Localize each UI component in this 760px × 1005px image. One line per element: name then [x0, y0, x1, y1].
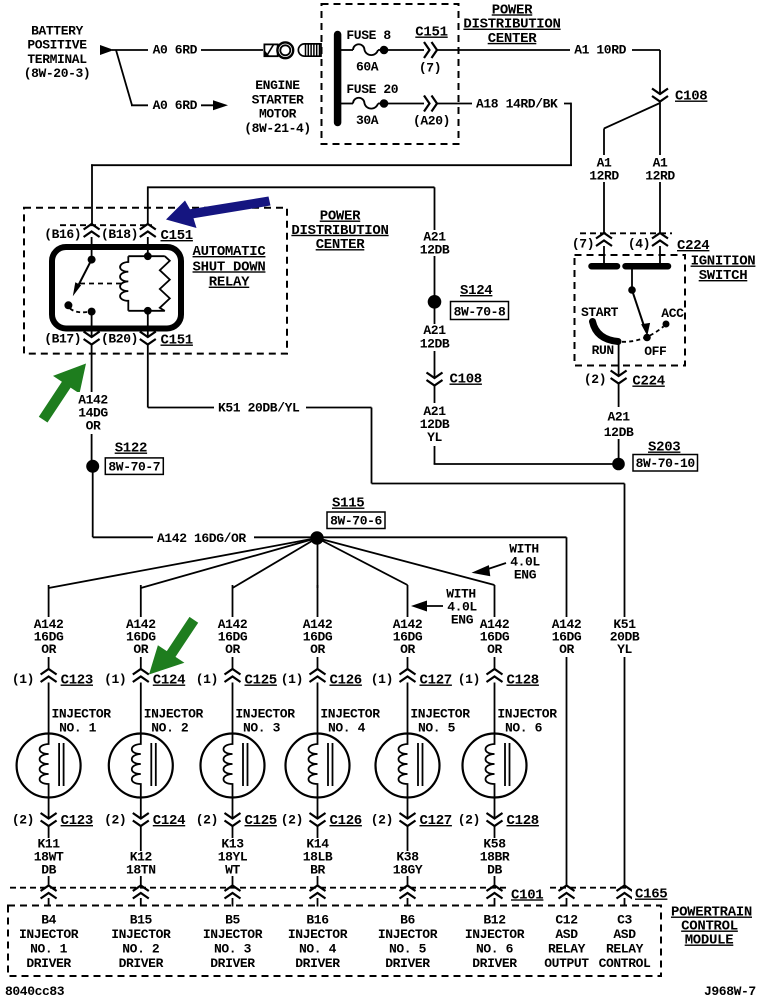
- connector C101 pin (injector 6): [487, 886, 503, 899]
- svg-text:8W-70-8: 8W-70-8: [454, 304, 506, 319]
- label A142 14DG OR: [75, 392, 111, 434]
- svg-text:NO. 2: NO. 2: [122, 942, 160, 957]
- svg-text:DRIVER: DRIVER: [210, 956, 255, 971]
- svg-text:C151: C151: [415, 25, 447, 41]
- svg-text:WT: WT: [225, 863, 240, 878]
- relay coil output wire to B20: [147, 311, 149, 338]
- svg-text:(2): (2): [12, 812, 34, 827]
- injector 4 coil: [309, 737, 318, 795]
- label K51 20DB YL (col 8): [609, 617, 642, 657]
- wire C125 to injector 3: [232, 683, 234, 738]
- svg-text:J968W-7: J968W-7: [704, 984, 756, 999]
- svg-text:C12: C12: [555, 913, 578, 928]
- svg-text:12DB: 12DB: [420, 243, 450, 258]
- connector C224 pin 4: [652, 233, 668, 246]
- svg-text:INJECTOR: INJECTOR: [410, 707, 470, 722]
- svg-text:(1): (1): [196, 672, 218, 687]
- ignition feed wire: [631, 269, 633, 290]
- svg-text:A18 14RD/BK: A18 14RD/BK: [476, 97, 558, 112]
- ignition contact bar right: [626, 263, 669, 270]
- injector 2 body: [109, 734, 173, 798]
- svg-text:8W-70-10: 8W-70-10: [636, 456, 696, 471]
- wire injector 4 return: [317, 795, 319, 819]
- splice S203: [612, 458, 625, 471]
- svg-text:OUTPUT: OUTPUT: [544, 956, 589, 971]
- svg-text:C101: C101: [511, 887, 543, 903]
- label A142 16DG OR (col 7): [550, 617, 585, 657]
- injector 3 body: [201, 734, 265, 798]
- automatic shut down relay box: [52, 247, 181, 329]
- ref box 8W-70-6: [327, 512, 385, 529]
- wire C126 to injector 4: [317, 683, 319, 738]
- wire A1 10RD: [437, 49, 660, 51]
- ref box 8W-70-10: [633, 455, 698, 472]
- injector 1 core: [58, 743, 60, 786]
- pointer arrow (blue) to C151: [166, 197, 271, 229]
- svg-text:(A20): (A20): [413, 114, 450, 129]
- label A21 12DB (mid): [416, 324, 453, 351]
- svg-text:B5: B5: [225, 913, 240, 928]
- wire A21 12DB YL: [434, 386, 436, 465]
- svg-text:C224: C224: [677, 238, 709, 254]
- connector C151 dashed line (top): [60, 224, 152, 226]
- svg-text:DB: DB: [487, 863, 502, 878]
- wire injector 3 return: [232, 795, 234, 819]
- ignition ACC contact: [663, 321, 670, 328]
- label A142 16DG OR (col 2): [124, 617, 159, 657]
- label A0 6RD (lower): [148, 97, 201, 111]
- relay coil feed wire: [147, 237, 149, 256]
- svg-text:FUSE 20: FUSE 20: [346, 82, 398, 97]
- svg-text:RELAY: RELAY: [548, 942, 586, 957]
- ref box 8W-70-8: [451, 302, 509, 320]
- wire K4 driver: [407, 826, 409, 886]
- injector 4 body: [286, 734, 350, 798]
- wire A142 14DG/OR: [91, 345, 93, 461]
- svg-text:C108: C108: [450, 372, 482, 388]
- connector C127 pin 1: [400, 669, 416, 682]
- injector 4 core: [327, 743, 329, 786]
- svg-text:S203: S203: [648, 440, 680, 456]
- wire fuse F20 to C151: [384, 103, 424, 105]
- label C101: [508, 884, 548, 899]
- svg-text:(B17): (B17): [44, 332, 81, 347]
- wire K51 to C165: [624, 484, 626, 887]
- starter motor feed arrowhead: [213, 100, 228, 110]
- svg-text:(8W-21-4): (8W-21-4): [244, 121, 311, 136]
- label K11 18WT DB: [32, 838, 67, 876]
- wire K51 20DB/YL: [147, 345, 149, 408]
- label A142 16DG OR (col 1): [32, 617, 67, 657]
- connector C127 pin 2: [400, 813, 416, 826]
- svg-text:18GY: 18GY: [393, 863, 423, 878]
- svg-text:ENG: ENG: [514, 568, 537, 583]
- svg-text:12DB: 12DB: [604, 425, 634, 440]
- wire A1 10RD drop: [659, 50, 661, 95]
- relay coil top node: [128, 255, 165, 257]
- injector 6 body: [463, 734, 527, 798]
- wire K5 driver: [494, 826, 496, 886]
- svg-text:RELAY: RELAY: [209, 275, 250, 291]
- injector 6 coil: [486, 737, 495, 795]
- connector C224 pin 7: [596, 233, 612, 246]
- injector 3 core: [242, 743, 244, 786]
- svg-text:C123: C123: [61, 813, 93, 829]
- svg-text:INJECTOR: INJECTOR: [465, 927, 525, 942]
- svg-text:INJECTOR: INJECTOR: [288, 927, 348, 942]
- wire K0 driver: [48, 826, 50, 886]
- connector C101 dashed line: [10, 887, 630, 889]
- svg-text:SWITCH: SWITCH: [699, 268, 748, 284]
- connector C224 pin 2: [611, 371, 627, 384]
- svg-text:8040cc83: 8040cc83: [5, 984, 65, 999]
- connector C126 pin 1: [310, 669, 326, 682]
- svg-text:B12: B12: [483, 913, 506, 928]
- svg-text:DRIVER: DRIVER: [472, 956, 517, 971]
- svg-text:C125: C125: [245, 673, 277, 689]
- svg-text:8W-70-6: 8W-70-6: [330, 514, 382, 529]
- connector C125 pin 2: [225, 813, 241, 826]
- svg-text:CENTER: CENTER: [488, 31, 538, 47]
- svg-text:C151: C151: [161, 228, 193, 244]
- connector C101 pin (injector 5): [400, 886, 416, 899]
- connector C151 pin 7 (fuse 8): [424, 42, 437, 58]
- svg-text:30A: 30A: [356, 113, 379, 128]
- connector C108 (top): [652, 89, 668, 102]
- svg-text:C128: C128: [507, 673, 539, 689]
- svg-text:(1): (1): [371, 672, 393, 687]
- ignition pivot junction: [628, 286, 636, 294]
- svg-text:(2): (2): [458, 812, 480, 827]
- svg-text:NO. 5: NO. 5: [418, 721, 456, 736]
- svg-text:POSITIVE: POSITIVE: [27, 38, 87, 53]
- svg-text:C126: C126: [330, 673, 362, 689]
- svg-text:12DB: 12DB: [420, 337, 450, 352]
- svg-text:DRIVER: DRIVER: [385, 956, 430, 971]
- pointer arrow (green) to A142 wire: [39, 364, 86, 423]
- wire C127 to injector 5: [407, 683, 409, 738]
- svg-text:A1 10RD: A1 10RD: [574, 43, 626, 58]
- svg-text:INJECTOR: INJECTOR: [111, 927, 171, 942]
- power distribution center box (top): [322, 4, 459, 144]
- wire injector 5 return: [407, 795, 409, 819]
- injector 6 core: [504, 743, 506, 786]
- connector C151 pin A20 (fuse 20): [424, 96, 437, 112]
- injector 1 coil: [40, 737, 49, 795]
- powertrain control module box: [8, 906, 661, 977]
- bus bar: [334, 35, 342, 123]
- ignition START-RUN contact arc: [593, 322, 619, 342]
- svg-text:(2): (2): [196, 812, 218, 827]
- relay coil L1: [120, 256, 128, 311]
- relay contact dashed link: [70, 309, 87, 313]
- svg-text:S115: S115: [332, 496, 364, 512]
- svg-text:A21: A21: [607, 410, 630, 425]
- injector 2 coil: [132, 737, 141, 795]
- svg-text:INJECTOR: INJECTOR: [497, 707, 557, 722]
- label A0 6RD (upper): [148, 42, 201, 56]
- svg-text:(7): (7): [419, 60, 441, 75]
- svg-text:C165: C165: [635, 887, 667, 903]
- svg-text:K51 20DB/YL: K51 20DB/YL: [218, 401, 300, 416]
- connector C128 pin 1: [487, 669, 503, 682]
- svg-text:C124: C124: [153, 813, 185, 829]
- power distribution center box (relay): [24, 208, 287, 354]
- svg-text:(2): (2): [584, 372, 606, 387]
- connector C108 (mid): [427, 373, 443, 386]
- svg-text:OR: OR: [225, 642, 240, 657]
- svg-text:(B16): (B16): [44, 227, 81, 242]
- label K12 18TN: [124, 851, 159, 876]
- svg-text:INJECTOR: INJECTOR: [19, 927, 79, 942]
- label A142 16DG OR (col 4): [301, 617, 336, 657]
- svg-text:C3: C3: [617, 913, 632, 928]
- injector 1 body: [17, 734, 81, 798]
- svg-text:OR: OR: [559, 642, 574, 657]
- injector 5 body: [376, 734, 440, 798]
- relay switch pivot: [88, 256, 96, 264]
- svg-text:DRIVER: DRIVER: [119, 956, 164, 971]
- svg-text:(7): (7): [572, 237, 594, 252]
- wire C123 to injector 1: [48, 683, 50, 738]
- svg-text:ENGINE: ENGINE: [255, 78, 300, 93]
- wire A142 16DG/OR to S115: [93, 536, 317, 538]
- injector 2 core: [150, 743, 152, 786]
- svg-text:NO. 4: NO. 4: [299, 942, 337, 957]
- svg-text:NO. 2: NO. 2: [151, 721, 189, 736]
- battery feed arrowhead: [100, 45, 114, 55]
- ref box 8W-70-7: [105, 458, 163, 475]
- svg-text:INJECTOR: INJECTOR: [320, 707, 380, 722]
- wire A21 12DB trunk: [148, 186, 435, 188]
- svg-text:RELAY: RELAY: [606, 942, 644, 957]
- relay coil bottom node: [128, 310, 165, 312]
- label A142 16DG OR (col 5): [391, 617, 426, 657]
- svg-text:OR: OR: [400, 642, 415, 657]
- connector C128 pin 2: [487, 813, 503, 826]
- svg-text:OR: OR: [310, 642, 325, 657]
- junction after fuse F20: [380, 99, 389, 108]
- connector C224 dashed line: [580, 232, 672, 234]
- ignition detent dashed arc: [622, 327, 664, 342]
- svg-text:(4): (4): [628, 237, 650, 252]
- svg-text:(2): (2): [104, 812, 126, 827]
- svg-text:MOTOR: MOTOR: [259, 107, 297, 122]
- svg-text:BATTERY: BATTERY: [31, 24, 83, 39]
- relay switch input wire: [91, 237, 93, 260]
- svg-text:NO. 6: NO. 6: [505, 721, 543, 736]
- svg-text:BR: BR: [310, 863, 325, 878]
- svg-text:C125: C125: [245, 813, 277, 829]
- svg-text:DRIVER: DRIVER: [295, 956, 340, 971]
- fuse F20: [341, 103, 353, 105]
- label A1 12RD (left): [586, 155, 623, 182]
- svg-text:YL: YL: [617, 642, 632, 657]
- svg-text:(8W-20-3): (8W-20-3): [24, 66, 91, 81]
- svg-text:C126: C126: [330, 813, 362, 829]
- svg-text:12RD: 12RD: [589, 168, 619, 183]
- svg-text:ACC: ACC: [661, 306, 684, 321]
- relay output wire to B17: [91, 312, 93, 338]
- svg-text:(2): (2): [371, 812, 393, 827]
- svg-text:NO. 3: NO. 3: [243, 721, 281, 736]
- svg-text:C128: C128: [507, 813, 539, 829]
- connector C151 pin B16: [84, 224, 100, 237]
- junction after fuse F8: [380, 46, 389, 55]
- label A142 16DG OR (col 6): [478, 617, 513, 657]
- wire K1 driver: [140, 826, 142, 886]
- svg-text:8W-70-7: 8W-70-7: [108, 459, 160, 474]
- svg-text:INJECTOR: INJECTOR: [235, 707, 295, 722]
- svg-text:NO. 1: NO. 1: [59, 721, 97, 736]
- label C165: [632, 884, 672, 899]
- svg-text:S124: S124: [460, 283, 492, 299]
- label K58 18BR DB: [478, 838, 513, 876]
- svg-text:SHUT DOWN: SHUT DOWN: [193, 259, 266, 275]
- wire injector 2 return: [140, 795, 142, 819]
- svg-text:NO. 4: NO. 4: [328, 721, 366, 736]
- svg-text:OR: OR: [41, 642, 56, 657]
- injector 5 core: [417, 743, 419, 786]
- svg-text:ENG: ENG: [451, 613, 474, 628]
- connector C124 pin 2: [133, 813, 149, 826]
- connector C151 pin B18: [140, 224, 156, 237]
- label A142 16DG/OR: [153, 530, 254, 544]
- ignition switch box: [575, 255, 686, 366]
- svg-text:FUSE 8: FUSE 8: [346, 28, 391, 43]
- svg-text:B16: B16: [306, 913, 329, 928]
- wire injector feed verticals: [48, 585, 50, 670]
- svg-text:60A: 60A: [356, 59, 379, 74]
- svg-text:INJECTOR: INJECTOR: [378, 927, 438, 942]
- svg-text:(1): (1): [104, 672, 126, 687]
- terminal ring lug: [264, 44, 277, 56]
- wire C124 to injector 2: [140, 683, 142, 738]
- wire injector 1 return: [48, 795, 50, 819]
- svg-text:12RD: 12RD: [645, 168, 675, 183]
- svg-text:C151: C151: [161, 333, 193, 349]
- connector C101 pin (injector 2): [133, 886, 149, 899]
- svg-text:(1): (1): [12, 672, 34, 687]
- svg-text:C123: C123: [61, 673, 93, 689]
- connector C123 pin 2: [41, 813, 57, 826]
- svg-text:A142 16DG/OR: A142 16DG/OR: [157, 531, 246, 546]
- ignition OFF contact: [643, 334, 651, 342]
- svg-text:CONTROL: CONTROL: [599, 956, 651, 971]
- injector 3 coil: [224, 737, 233, 795]
- relay switch contact: [64, 301, 72, 309]
- svg-text:INJECTOR: INJECTOR: [203, 927, 263, 942]
- svg-text:START: START: [581, 305, 619, 320]
- splice S115: [310, 531, 323, 544]
- ignition switch arm: [632, 290, 645, 328]
- injector 5 coil: [399, 737, 408, 795]
- svg-text:AUTOMATIC: AUTOMATIC: [193, 244, 267, 260]
- relay output node: [88, 308, 96, 316]
- label A18 14RD/BK: [472, 96, 564, 110]
- svg-text:INJECTOR: INJECTOR: [51, 707, 111, 722]
- wire C128 to injector 6: [494, 683, 496, 738]
- svg-text:(B18): (B18): [101, 227, 138, 242]
- svg-text:C127: C127: [420, 673, 452, 689]
- label K51 20DB/YL: [214, 400, 306, 414]
- svg-text:B6: B6: [400, 913, 415, 928]
- svg-text:ASD: ASD: [613, 927, 636, 942]
- svg-text:RUN: RUN: [592, 343, 614, 358]
- svg-text:OFF: OFF: [644, 344, 667, 359]
- connector C101 pin (injector 4): [310, 886, 326, 899]
- svg-text:MODULE: MODULE: [685, 933, 734, 949]
- wire C224-4 into switch: [659, 246, 661, 264]
- connector C101 pin (injector 3): [225, 886, 241, 899]
- wire injector 6 return: [494, 795, 496, 819]
- svg-text:18TN: 18TN: [126, 863, 156, 878]
- svg-text:(1): (1): [281, 672, 303, 687]
- svg-text:B15: B15: [130, 913, 153, 928]
- svg-text:C124: C124: [153, 673, 185, 689]
- wire A0 6RD to PDC: [112, 49, 263, 51]
- wire A21 12DB from ignition: [618, 384, 620, 465]
- label K38 18GY: [391, 851, 426, 876]
- fuse F8: [341, 49, 353, 51]
- svg-text:CENTER: CENTER: [316, 237, 366, 253]
- wire fuse F8 to C151: [384, 49, 424, 51]
- connector C165 pin C3: [617, 886, 633, 899]
- label K14 18LB BR: [301, 838, 336, 876]
- svg-text:OR: OR: [86, 419, 101, 434]
- ignition contact bar left: [592, 263, 618, 270]
- splice S124: [428, 295, 442, 309]
- relay switch arm: [78, 260, 92, 287]
- wire C224-7 into switch: [603, 246, 605, 264]
- wire RUN output: [618, 342, 620, 377]
- connector C151 pin B17: [84, 332, 100, 345]
- connector C101 pin (injector 1): [41, 886, 57, 899]
- connector C124 pin 1: [133, 669, 149, 682]
- wire below C108 split: [659, 102, 661, 235]
- svg-text:NO. 5: NO. 5: [389, 942, 427, 957]
- wires into PCM: [48, 898, 50, 907]
- connector C151 pin B20: [140, 332, 156, 345]
- svg-text:(B20): (B20): [101, 332, 138, 347]
- svg-text:OR: OR: [487, 642, 502, 657]
- wire S115 fan-out: [49, 538, 317, 588]
- svg-text:OR: OR: [133, 642, 148, 657]
- svg-text:NO. 3: NO. 3: [214, 942, 252, 957]
- svg-text:(2): (2): [281, 812, 303, 827]
- label A1 12RD (right): [641, 155, 680, 182]
- svg-text:(1): (1): [458, 672, 480, 687]
- splice S122: [86, 460, 99, 473]
- relay mechanical dashed link: [80, 283, 122, 285]
- svg-text:A0 6RD: A0 6RD: [153, 43, 198, 58]
- svg-text:DB: DB: [41, 863, 56, 878]
- label A1 10RD: [570, 42, 632, 56]
- wire branch to starter motor: [116, 50, 132, 105]
- svg-text:STARTER: STARTER: [252, 92, 304, 107]
- svg-text:B4: B4: [41, 913, 56, 928]
- svg-text:NO. 1: NO. 1: [30, 942, 68, 957]
- svg-text:DRIVER: DRIVER: [26, 956, 71, 971]
- relay resistor R1: [160, 256, 170, 311]
- label A142 16DG OR (col 3): [216, 617, 251, 657]
- svg-text:ASD: ASD: [555, 927, 578, 942]
- wire K3 driver: [317, 826, 319, 886]
- svg-text:A0 6RD: A0 6RD: [153, 98, 198, 113]
- svg-text:C108: C108: [675, 89, 707, 105]
- label K13 18YL WT: [216, 838, 251, 876]
- svg-text:TERMINAL: TERMINAL: [27, 52, 87, 67]
